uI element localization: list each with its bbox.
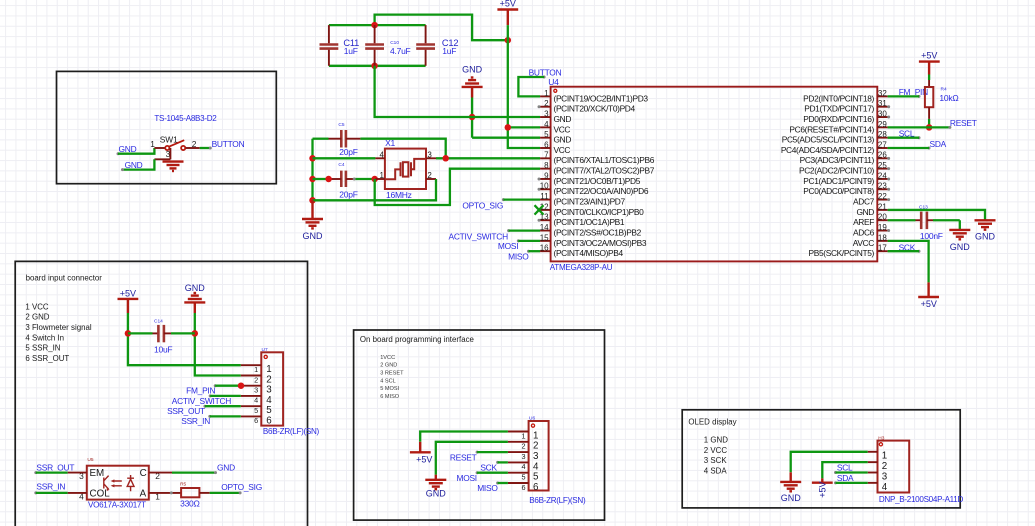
svg-text:GND: GND — [125, 160, 143, 170]
svg-text:U4: U4 — [548, 77, 559, 87]
svg-text:PC2(ADC2/PCINT10): PC2(ADC2/PCINT10) — [799, 166, 875, 176]
svg-text:MOSI: MOSI — [456, 473, 476, 483]
svg-text:3: 3 — [544, 109, 549, 118]
svg-text:ADC7: ADC7 — [853, 197, 875, 207]
svg-text:7: 7 — [544, 151, 549, 160]
svg-text:32: 32 — [878, 89, 887, 98]
svg-text:1uF: 1uF — [442, 46, 456, 56]
svg-text:6: 6 — [533, 482, 539, 493]
svg-text:2: 2 — [254, 375, 258, 384]
svg-text:18: 18 — [878, 233, 887, 242]
svg-text:23: 23 — [878, 182, 887, 191]
svg-text:U6: U6 — [529, 415, 535, 421]
svg-text:GND: GND — [781, 493, 802, 503]
svg-text:SDA: SDA — [930, 139, 947, 149]
svg-text:R5: R5 — [180, 482, 186, 488]
svg-text:22: 22 — [878, 192, 887, 201]
svg-text:BUTTON: BUTTON — [212, 139, 245, 149]
svg-text:PC4(ADC4/SDA/PCINT12): PC4(ADC4/SDA/PCINT12) — [781, 145, 875, 155]
svg-text:27: 27 — [878, 140, 887, 149]
svg-text:4: 4 — [544, 120, 549, 129]
svg-text:3: 3 — [882, 471, 888, 482]
svg-text:1: 1 — [379, 171, 384, 180]
svg-text:5: 5 — [521, 473, 525, 482]
svg-text:(PCINT0/CLKO/ICP1)PB0: (PCINT0/CLKO/ICP1)PB0 — [554, 207, 645, 217]
svg-text:EM: EM — [90, 468, 105, 479]
svg-text:31: 31 — [878, 99, 887, 108]
svg-text:(PCINT1/OC1A)PB1: (PCINT1/OC1A)PB1 — [554, 217, 625, 227]
svg-text:17: 17 — [878, 244, 887, 253]
svg-text:SSR_IN: SSR_IN — [36, 481, 65, 491]
svg-text:(PCINT19/OC2B/INT1)PD3: (PCINT19/OC2B/INT1)PD3 — [554, 93, 649, 103]
svg-text:MOSI: MOSI — [498, 241, 518, 251]
svg-text:(PCINT3/OC2A/MOSI)PB3: (PCINT3/OC2A/MOSI)PB3 — [554, 238, 647, 248]
svg-text:OPTO_SIG: OPTO_SIG — [221, 482, 262, 492]
svg-text:6 SSR_OUT: 6 SSR_OUT — [25, 354, 69, 363]
svg-text:330Ω: 330Ω — [180, 499, 200, 509]
svg-text:6: 6 — [544, 140, 549, 149]
svg-text:GND: GND — [975, 231, 996, 241]
svg-text:16: 16 — [540, 244, 549, 253]
svg-text:6: 6 — [521, 483, 525, 492]
svg-text:VO617A-3X017T: VO617A-3X017T — [88, 501, 146, 510]
svg-text:1: 1 — [150, 139, 155, 149]
svg-text:1: 1 — [254, 365, 258, 374]
svg-text:On board programming interface: On board programming interface — [360, 335, 475, 344]
svg-text:MISO: MISO — [508, 252, 529, 262]
svg-text:2: 2 — [192, 139, 197, 149]
svg-text:C: C — [140, 468, 147, 479]
svg-text:TS-1045-A8B3-D2: TS-1045-A8B3-D2 — [154, 114, 217, 123]
svg-text:10: 10 — [540, 182, 549, 191]
svg-text:5: 5 — [544, 130, 549, 139]
svg-text:PD0(RXD/PCINT16): PD0(RXD/PCINT16) — [803, 114, 874, 124]
svg-text:1: 1 — [882, 451, 887, 462]
svg-text:3: 3 — [521, 452, 525, 461]
svg-text:PC0(ADC0/PCINT8): PC0(ADC0/PCINT8) — [803, 186, 874, 196]
svg-text:GND: GND — [950, 242, 971, 252]
svg-text:26: 26 — [878, 151, 887, 160]
svg-text:2: 2 — [882, 461, 887, 472]
svg-text:15: 15 — [540, 233, 549, 242]
svg-text:ADC6: ADC6 — [853, 227, 875, 237]
svg-text:4: 4 — [882, 482, 888, 493]
svg-text:GND: GND — [462, 64, 483, 74]
svg-text:GND: GND — [554, 114, 572, 124]
svg-text:OLED display: OLED display — [688, 417, 736, 426]
svg-text:(PCINT21/OC0B/T1)PD5: (PCINT21/OC0B/T1)PD5 — [554, 176, 641, 186]
svg-text:4: 4 — [379, 150, 384, 159]
svg-text:1 VCC: 1 VCC — [25, 302, 49, 311]
svg-text:2 VCC: 2 VCC — [704, 446, 728, 455]
svg-text:(PCINT22/OC0A/AIN0)PD6: (PCINT22/OC0A/AIN0)PD6 — [554, 186, 649, 196]
svg-text:A: A — [140, 489, 147, 500]
svg-text:ACTIV_SWITCH: ACTIV_SWITCH — [449, 231, 509, 241]
svg-text:GND: GND — [303, 231, 324, 241]
svg-text:11: 11 — [540, 192, 549, 201]
svg-text:PD1(TXD/PCINT17): PD1(TXD/PCINT17) — [804, 104, 874, 114]
svg-text:5 SSR_IN: 5 SSR_IN — [25, 344, 60, 353]
svg-text:3 RESET: 3 RESET — [380, 370, 404, 376]
svg-text:1VCC: 1VCC — [380, 355, 395, 361]
svg-text:R4: R4 — [941, 86, 947, 92]
svg-text:5: 5 — [254, 406, 258, 415]
svg-text:(PCINT6/XTAL1/TOSC1)PB6: (PCINT6/XTAL1/TOSC1)PB6 — [554, 155, 655, 165]
svg-text:20pF: 20pF — [339, 189, 357, 199]
svg-text:3 SCK: 3 SCK — [704, 456, 728, 465]
svg-text:+5V: +5V — [500, 0, 516, 9]
svg-text:+5V: +5V — [120, 288, 136, 298]
svg-text:RESET: RESET — [950, 118, 977, 128]
svg-text:1uF: 1uF — [344, 46, 358, 56]
svg-text:GND: GND — [426, 488, 447, 498]
svg-text:H3: H3 — [878, 436, 884, 442]
svg-text:3: 3 — [254, 386, 258, 395]
svg-text:PC5(ADC5/SCL/PCINT13): PC5(ADC5/SCL/PCINT13) — [782, 135, 875, 145]
svg-text:RESET: RESET — [450, 452, 477, 462]
svg-text:+5V: +5V — [818, 481, 828, 497]
svg-text:FM_PIN: FM_PIN — [186, 385, 215, 395]
svg-text:board input connector: board input connector — [26, 274, 103, 283]
svg-text:VCC: VCC — [554, 145, 571, 155]
svg-text:B6B-ZR(LF)(SN): B6B-ZR(LF)(SN) — [529, 496, 586, 505]
svg-text:5 MOSI: 5 MOSI — [380, 386, 399, 392]
svg-text:DNP_B-2100S04P-A11D: DNP_B-2100S04P-A11D — [879, 495, 964, 504]
svg-text:13: 13 — [540, 213, 549, 222]
svg-text:(PCINT4/MISO)PB4: (PCINT4/MISO)PB4 — [554, 248, 624, 258]
svg-text:21: 21 — [878, 202, 887, 211]
svg-text:+5V: +5V — [921, 299, 937, 309]
svg-text:30: 30 — [878, 109, 887, 118]
svg-text:24: 24 — [878, 171, 887, 180]
svg-text:SCL: SCL — [837, 463, 853, 473]
svg-text:2 GND: 2 GND — [380, 363, 397, 369]
svg-text:4: 4 — [254, 396, 258, 405]
svg-text:X1: X1 — [385, 138, 395, 148]
svg-text:GND: GND — [554, 135, 572, 145]
svg-text:SCK: SCK — [480, 463, 497, 473]
svg-text:SSR_OUT: SSR_OUT — [36, 462, 74, 472]
svg-text:4.7uF: 4.7uF — [390, 46, 411, 56]
svg-text:19: 19 — [878, 223, 887, 232]
svg-text:GND: GND — [856, 207, 874, 217]
svg-text:6: 6 — [254, 416, 258, 425]
svg-text:C13: C13 — [919, 204, 928, 210]
svg-text:AVCC: AVCC — [853, 238, 875, 248]
svg-text:AREF: AREF — [853, 217, 874, 227]
svg-text:(PCINT23/AIN1)PD7: (PCINT23/AIN1)PD7 — [554, 197, 626, 207]
svg-text:4 SDA: 4 SDA — [704, 466, 728, 475]
svg-text:10uF: 10uF — [154, 345, 172, 355]
svg-text:14: 14 — [540, 223, 549, 232]
svg-text:29: 29 — [878, 120, 887, 129]
svg-text:6 MISO: 6 MISO — [380, 394, 400, 400]
svg-text:28: 28 — [878, 130, 887, 139]
svg-text:GND: GND — [217, 462, 235, 472]
svg-text:GND: GND — [185, 283, 206, 293]
svg-text:VCC: VCC — [554, 124, 571, 134]
svg-text:SDA: SDA — [837, 473, 854, 483]
svg-text:1: 1 — [544, 89, 549, 98]
svg-text:OPTO_SIG: OPTO_SIG — [462, 201, 503, 211]
svg-text:3: 3 — [427, 150, 432, 159]
svg-text:+5V: +5V — [416, 455, 432, 465]
svg-text:PD2(INT0/PCINT18): PD2(INT0/PCINT18) — [803, 93, 874, 103]
svg-text:U5: U5 — [87, 457, 93, 463]
svg-text:16MHz: 16MHz — [386, 190, 412, 200]
svg-text:100nF: 100nF — [920, 231, 943, 241]
svg-text:20: 20 — [878, 213, 887, 222]
svg-text:2 GND: 2 GND — [25, 313, 49, 322]
svg-text:(PCINT20/XCK/T0)PD4: (PCINT20/XCK/T0)PD4 — [554, 104, 636, 114]
svg-text:4: 4 — [521, 462, 525, 471]
svg-text:ATMEGA328P-AU: ATMEGA328P-AU — [550, 263, 613, 272]
svg-text:1 GND: 1 GND — [704, 435, 728, 444]
svg-text:SSR_OUT: SSR_OUT — [167, 406, 205, 416]
svg-text:B6B-ZR(LF)(SN): B6B-ZR(LF)(SN) — [263, 427, 320, 436]
svg-text:4 SCL: 4 SCL — [380, 378, 396, 384]
svg-text:3 Flowmeter signal: 3 Flowmeter signal — [25, 323, 91, 332]
svg-text:10kΩ: 10kΩ — [939, 93, 958, 103]
svg-text:+5V: +5V — [921, 51, 937, 61]
svg-text:C5: C5 — [338, 122, 344, 128]
svg-text:PC3(ADC3/PCINT11): PC3(ADC3/PCINT11) — [800, 155, 875, 165]
svg-text:2: 2 — [521, 442, 525, 451]
svg-text:20pF: 20pF — [339, 147, 357, 157]
svg-text:ACTIV_SWITCH: ACTIV_SWITCH — [172, 396, 232, 406]
svg-text:2: 2 — [544, 99, 549, 108]
svg-text:C14: C14 — [154, 319, 163, 325]
svg-text:PC1(ADC1/PCINT9): PC1(ADC1/PCINT9) — [803, 176, 874, 186]
svg-text:PB5(SCK/PCINT5): PB5(SCK/PCINT5) — [809, 248, 875, 258]
svg-text:U7: U7 — [262, 347, 268, 353]
svg-text:(PCINT2/SS#/OC1B)PB2: (PCINT2/SS#/OC1B)PB2 — [554, 227, 642, 237]
svg-text:MISO: MISO — [477, 483, 498, 493]
svg-text:PC6(RESET#/PCINT14): PC6(RESET#/PCINT14) — [789, 124, 874, 134]
svg-text:9: 9 — [544, 171, 549, 180]
svg-text:(PCINT7/XTAL2/TOSC2)PB7: (PCINT7/XTAL2/TOSC2)PB7 — [554, 166, 655, 176]
svg-text:25: 25 — [878, 161, 887, 170]
svg-text:8: 8 — [544, 161, 549, 170]
svg-text:1: 1 — [521, 431, 525, 440]
svg-text:4 Switch In: 4 Switch In — [25, 333, 64, 342]
svg-text:C4: C4 — [338, 162, 344, 168]
svg-text:2: 2 — [427, 171, 432, 180]
svg-text:SSR_IN: SSR_IN — [181, 416, 210, 426]
svg-text:6: 6 — [266, 415, 272, 426]
